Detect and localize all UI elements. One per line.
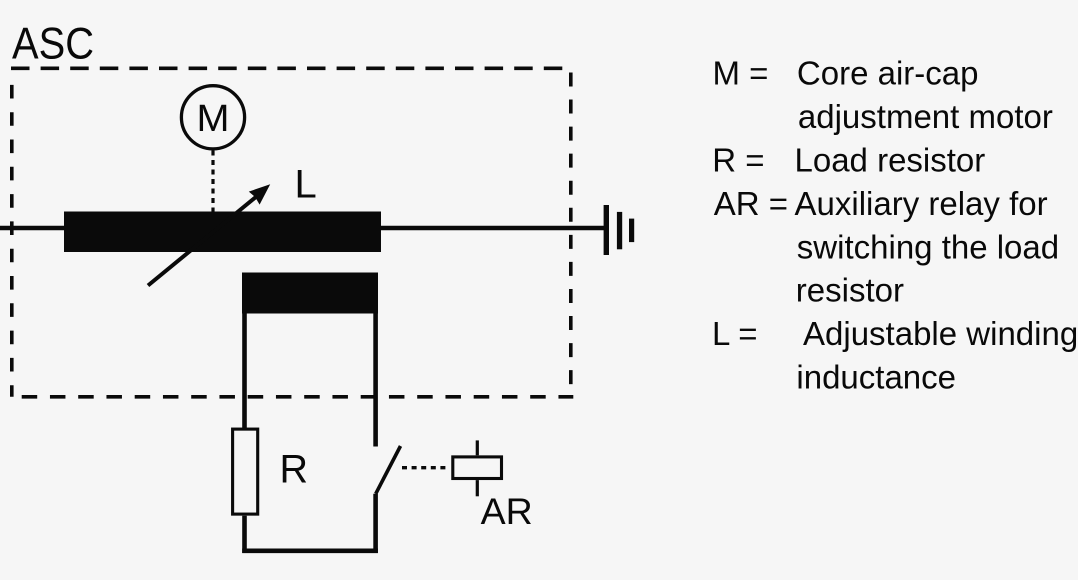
dashed enclosure box right edge <box>569 73 573 385</box>
relay AR coil vertical lead top <box>476 440 479 455</box>
secondary winding (solid bar) <box>242 273 378 314</box>
wire: below switch <box>373 494 378 553</box>
adjustment arrow shaft across winding L <box>148 195 259 286</box>
motor M circle <box>181 86 244 149</box>
svg-text:L: L <box>295 162 317 206</box>
wire: from winding L to ground <box>379 226 604 231</box>
ground symbol bar 2 <box>617 212 622 249</box>
dotted actuation link from switch to relay AR <box>402 466 447 469</box>
wire: left lead into winding L <box>0 226 66 231</box>
ground symbol bar 1 (longest) <box>604 205 609 255</box>
svg-text:Auxiliary relay for: Auxiliary relay for <box>795 185 1048 222</box>
dashed drive link from motor M to winding L <box>211 151 214 212</box>
wire: bottom return wire <box>242 548 378 553</box>
svg-text:switching the load: switching the load <box>797 228 1059 265</box>
adjustment arrow head <box>249 184 270 204</box>
svg-text:Core air-cap: Core air-cap <box>797 55 979 92</box>
dashed enclosure box bottom edge <box>22 395 574 399</box>
relay AR coil vertical lead bottom <box>476 480 479 496</box>
svg-text:ASC: ASC <box>12 19 94 68</box>
dashed enclosure box left edge <box>10 85 14 397</box>
inductor L main winding (solid bar) <box>64 212 381 253</box>
relay AR coil box <box>453 457 502 479</box>
wire: secondary winding left terminal down to resistor R <box>242 312 247 428</box>
svg-text:resistor: resistor <box>796 272 904 309</box>
svg-text:Adjustable winding: Adjustable winding <box>803 315 1078 352</box>
svg-text:inductance: inductance <box>796 359 956 396</box>
wire: secondary winding right terminal down to switch <box>373 312 378 447</box>
svg-text:AR =: AR = <box>714 185 788 222</box>
wire: below resistor R <box>242 516 247 553</box>
svg-text:M: M <box>197 98 230 140</box>
svg-text:R: R <box>280 448 309 492</box>
svg-text:adjustment motor: adjustment motor <box>798 98 1053 135</box>
resistor R body <box>233 429 258 514</box>
dashed enclosure box (ASC unit boundary) top edge <box>11 67 562 71</box>
switch blade (auxiliary relay contact) <box>376 446 401 494</box>
svg-text:M =: M = <box>713 55 769 92</box>
svg-text:L =: L = <box>712 315 758 352</box>
svg-text:R =: R = <box>712 142 764 179</box>
ground symbol bar 3 (shortest) <box>629 219 634 243</box>
svg-text:Load resistor: Load resistor <box>795 142 986 179</box>
svg-text:AR: AR <box>481 490 533 532</box>
